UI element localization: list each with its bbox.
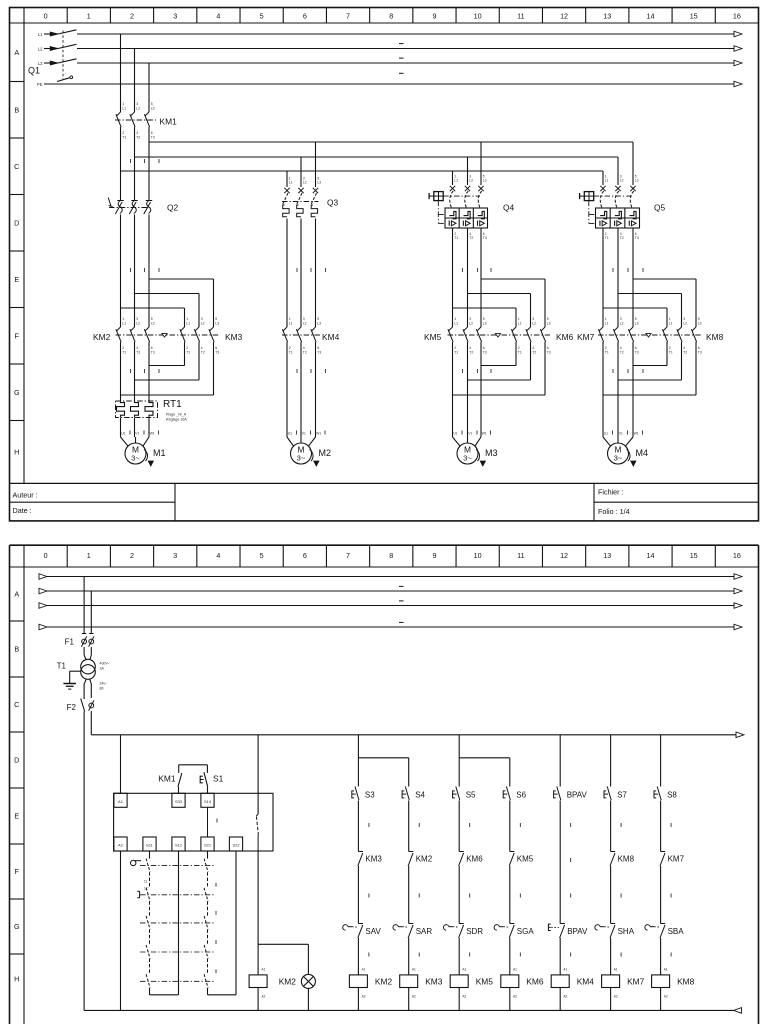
svg-text:U1: U1	[604, 431, 608, 435]
svg-text:KM3: KM3	[365, 855, 382, 864]
wire KM6 crossover	[453, 342, 546, 395]
svg-text:A2: A2	[664, 995, 668, 999]
svg-text:F2: F2	[67, 703, 77, 712]
svg-text:9: 9	[432, 12, 436, 21]
arrow L1 right	[734, 31, 742, 37]
wire bus to Q3 pole1	[286, 171, 288, 187]
svg-text:16: 16	[733, 551, 741, 560]
svg-text:L2: L2	[201, 321, 205, 325]
wire KM1 to Q2 phase 1	[121, 127, 131, 200]
contact KM6 interlock	[459, 852, 484, 866]
wire KM5 lower	[510, 866, 521, 924]
svg-text:T3: T3	[698, 350, 702, 354]
svg-text:6: 6	[303, 12, 307, 21]
svg-text:L1: L1	[669, 321, 673, 325]
svg-text:T3: T3	[483, 350, 487, 354]
svg-text:T1: T1	[454, 350, 458, 354]
svg-text:S12: S12	[175, 843, 183, 848]
wire BPAV lower	[560, 801, 571, 852]
svg-text:T3: T3	[635, 236, 639, 240]
wire control bus 24V	[91, 711, 744, 738]
svg-text:S3: S3	[365, 791, 375, 800]
svg-text:SGA: SGA	[517, 927, 535, 936]
svg-text:4: 4	[216, 551, 220, 560]
svg-text:G: G	[14, 922, 20, 931]
svg-text:A2: A2	[362, 995, 366, 999]
wire feed S5	[458, 735, 460, 787]
motor circuit breaker Q5	[580, 174, 666, 240]
svg-text:S11: S11	[146, 843, 154, 848]
interlock KM2-KM3	[116, 334, 219, 337]
contactor KM7	[577, 317, 639, 354]
svg-text:6: 6	[303, 551, 307, 560]
svg-text:10: 10	[474, 551, 482, 560]
svg-text:15: 15	[690, 551, 698, 560]
wire bus to Q3 pole3	[315, 142, 317, 187]
wire feed S3	[357, 735, 359, 787]
wire KM7 to 0V	[610, 988, 612, 1011]
svg-text:KM8: KM8	[618, 855, 635, 864]
contact KM8 interlock	[610, 852, 635, 866]
switch SAV	[343, 924, 382, 938]
svg-text:3~: 3~	[297, 454, 306, 463]
svg-text:KM5: KM5	[424, 332, 442, 342]
svg-text:L2: L2	[683, 321, 687, 325]
svg-text:T1: T1	[289, 350, 293, 354]
switch S7	[604, 787, 627, 801]
switch S6	[503, 787, 526, 801]
svg-text:L3: L3	[635, 321, 639, 325]
coil KM3	[400, 975, 443, 999]
svg-text:A1: A1	[362, 968, 366, 972]
svg-text:Fichier :: Fichier :	[598, 488, 624, 497]
switch S8	[654, 787, 677, 801]
page 2 drawing frame	[10, 545, 759, 1024]
svg-text:T2: T2	[620, 236, 624, 240]
svg-text:5: 5	[260, 12, 264, 21]
svg-text:Auteur :: Auteur :	[13, 491, 38, 500]
safety module block	[114, 793, 273, 851]
svg-text:3A: 3A	[100, 666, 105, 670]
wire KM2 lower	[409, 866, 420, 924]
svg-text:S14: S14	[204, 799, 212, 804]
wire S14 to S21	[207, 807, 209, 837]
svg-text:L3: L3	[483, 321, 487, 325]
coil KM2	[349, 975, 392, 999]
svg-text:KM6: KM6	[526, 977, 544, 987]
svg-text:T1: T1	[454, 236, 458, 240]
wire KM5 to 0V	[458, 988, 460, 1011]
page 1 drawing frame	[10, 8, 759, 521]
svg-text:S4: S4	[415, 791, 425, 800]
wire page2 line 2	[39, 588, 742, 594]
contact KM1 aux	[158, 765, 207, 794]
svg-text:A2: A2	[412, 995, 416, 999]
wire M4 branch reverse-branch bars	[603, 279, 696, 327]
svg-text:86: 86	[100, 686, 104, 690]
svg-text:T3: T3	[547, 350, 551, 354]
svg-text:A1: A1	[412, 968, 416, 972]
svg-text:S1: S1	[213, 774, 224, 784]
wire KM1 to Q2 phase 3	[149, 127, 159, 200]
wire RT1 to motor	[121, 418, 150, 438]
svg-text:L1: L1	[289, 181, 293, 185]
contactor KM1	[115, 102, 177, 139]
contact KM3 interlock	[358, 852, 383, 866]
svg-text:8: 8	[389, 551, 393, 560]
motor M4	[603, 431, 648, 467]
wire feed S7	[610, 735, 612, 787]
svg-text:5: 5	[260, 551, 264, 560]
svg-text:12: 12	[144, 887, 148, 891]
switch BPAV	[554, 787, 588, 801]
wire KM7 lower	[661, 866, 672, 924]
svg-text:3: 3	[173, 12, 177, 21]
interlock KM5-KM6	[448, 334, 551, 337]
svg-text:A2: A2	[513, 995, 517, 999]
wire bus to module output contact	[257, 735, 259, 814]
wire M3 branch lower to motor	[453, 342, 492, 437]
wire line1 to F1	[82, 577, 86, 634]
circuit breaker Q2	[108, 198, 178, 215]
wire name marks page 2	[399, 586, 404, 622]
bus L3 (top)	[149, 142, 633, 185]
arrow L3 right	[734, 60, 742, 66]
svg-text:KM4: KM4	[577, 977, 595, 987]
wire M3 branch reverse-branch bars	[453, 279, 546, 327]
bus L2 (middle)	[135, 157, 619, 185]
svg-text:A1: A1	[513, 968, 517, 972]
svg-text:L3: L3	[698, 321, 702, 325]
svg-text:L2: L2	[303, 321, 307, 325]
wire KM6 lower	[459, 866, 470, 924]
svg-text:KM3: KM3	[425, 977, 443, 987]
wire PE line	[44, 83, 734, 85]
svg-text:L3: L3	[483, 179, 487, 183]
wire feed S4	[358, 758, 408, 787]
wire BPAV to coil	[560, 938, 571, 975]
contact KM5 interlock	[509, 852, 534, 866]
wire KM3 lower	[358, 866, 369, 924]
svg-text:M3: M3	[485, 448, 498, 458]
svg-text:Folio : 1/4: Folio : 1/4	[598, 507, 630, 516]
svg-text:Réglage 16A: Réglage 16A	[166, 418, 187, 422]
fuse F1	[65, 636, 94, 646]
svg-text:Q3: Q3	[327, 198, 339, 208]
wire KM2 to 0V	[357, 988, 359, 1011]
interlock KM7-KM8	[598, 334, 701, 337]
motor M1	[121, 431, 166, 467]
svg-text:L1: L1	[38, 32, 43, 37]
wire L2 drop to KM1	[134, 49, 136, 113]
svg-text:A: A	[14, 590, 19, 599]
coil KM2 (main)	[249, 968, 296, 1011]
wire L1 entry	[44, 33, 58, 35]
wire feed S8	[660, 735, 662, 787]
coil KM8	[652, 975, 695, 999]
svg-text:15: 15	[690, 12, 698, 21]
svg-text:7: 7	[346, 12, 350, 21]
svg-text:A1: A1	[563, 968, 567, 972]
svg-text:PE: PE	[37, 82, 43, 87]
svg-text:KM6: KM6	[556, 332, 574, 342]
wire S6 lower	[510, 801, 521, 852]
switch S4	[402, 787, 425, 801]
wire SGA to coil	[510, 938, 521, 975]
wire M4 branch lower to motor	[603, 342, 643, 437]
svg-text:T3: T3	[317, 350, 321, 354]
svg-text:V1: V1	[135, 431, 139, 435]
svg-text:T2: T2	[303, 350, 307, 354]
svg-text:A2: A2	[614, 995, 618, 999]
contact KM2 interlock	[408, 852, 433, 866]
svg-text:T2: T2	[532, 350, 536, 354]
svg-text:SBA: SBA	[668, 927, 685, 936]
svg-text:Q1: Q1	[28, 66, 40, 76]
wire KM3 crossover	[121, 342, 214, 395]
svg-text:H: H	[14, 975, 19, 984]
motor M3	[453, 431, 498, 467]
svg-text:13: 13	[603, 551, 611, 560]
svg-text:BPAV: BPAV	[567, 791, 588, 800]
wire chain bottoms	[150, 851, 237, 995]
svg-text:W1: W1	[316, 431, 321, 435]
svg-text:C: C	[14, 162, 19, 171]
svg-text:T2: T2	[136, 135, 140, 139]
svg-text:L1: L1	[186, 321, 190, 325]
svg-text:3~: 3~	[614, 454, 623, 463]
svg-text:T1: T1	[605, 350, 609, 354]
wire F1 to T1	[84, 647, 91, 660]
svg-text:L1: L1	[122, 321, 126, 325]
svg-text:L2: L2	[303, 181, 307, 185]
switch SAR	[393, 924, 432, 938]
svg-text:KM1: KM1	[158, 774, 176, 784]
switch S5	[453, 787, 476, 801]
wire L1 phase line	[77, 33, 734, 35]
svg-text:14: 14	[646, 12, 654, 21]
wire bus to Q4 pole2	[467, 157, 469, 185]
wire KM4 to 0V	[559, 988, 561, 1011]
svg-text:T3: T3	[215, 350, 219, 354]
arrow PE right	[734, 81, 742, 87]
svg-text:T1: T1	[122, 135, 126, 139]
svg-text:A1: A1	[614, 968, 618, 972]
svg-text:T2: T2	[201, 350, 205, 354]
svg-text:3~: 3~	[131, 454, 140, 463]
svg-text:KM7: KM7	[627, 977, 645, 987]
svg-text:B: B	[14, 645, 19, 654]
svg-text:L1: L1	[518, 321, 522, 325]
wire 24V return	[83, 712, 85, 1011]
svg-text:KM2: KM2	[93, 332, 111, 342]
wire L3 drop to KM1	[148, 63, 150, 112]
indicator lamp	[301, 944, 315, 1010]
wire L2 phase line	[77, 48, 734, 50]
svg-text:L1: L1	[454, 321, 458, 325]
wire feed S6	[459, 758, 510, 787]
ground	[63, 684, 76, 690]
contactor KM8	[662, 317, 723, 354]
switch BPAV	[548, 924, 588, 938]
wire S4 lower	[409, 801, 420, 852]
thermal overload relay RT1	[116, 399, 188, 422]
svg-text:A2: A2	[262, 995, 266, 999]
wire M2 branch lower to motor	[287, 342, 326, 437]
svg-text:M4: M4	[636, 448, 649, 458]
svg-text:KM4: KM4	[322, 332, 340, 342]
svg-text:7: 7	[346, 551, 350, 560]
svg-text:L3: L3	[547, 321, 551, 325]
svg-text:Q4: Q4	[503, 203, 515, 213]
svg-text:T2: T2	[620, 350, 624, 354]
svg-text:L1: L1	[605, 179, 609, 183]
svg-text:S5: S5	[466, 791, 476, 800]
svg-text:D: D	[14, 756, 19, 765]
wire S3 lower	[358, 801, 369, 852]
page 1 column numbers	[44, 12, 741, 21]
coil KM5	[450, 975, 493, 999]
svg-text:11: 11	[144, 880, 148, 884]
svg-text:V1: V1	[619, 431, 623, 435]
wire T1 to F2	[84, 679, 91, 699]
svg-text:S7: S7	[617, 791, 627, 800]
svg-text:T1: T1	[186, 350, 190, 354]
wire 0V bus	[84, 1008, 741, 1014]
svg-text:A2: A2	[462, 995, 466, 999]
svg-text:KM5: KM5	[517, 855, 534, 864]
svg-text:SAV: SAV	[365, 927, 381, 936]
wire KM1 to Q2 phase 2	[135, 127, 145, 200]
wire L3 phase line	[77, 62, 734, 64]
wire bus to Q4 pole1	[452, 171, 454, 185]
svg-text:L2: L2	[620, 179, 624, 183]
svg-text:C: C	[14, 700, 19, 709]
svg-text:2: 2	[130, 12, 134, 21]
motor circuit breaker Q4	[429, 174, 514, 240]
svg-text:Plage _N/_A: Plage _N/_A	[166, 413, 187, 417]
wire SDR to coil	[459, 938, 470, 975]
svg-text:W1: W1	[634, 431, 639, 435]
contactor KM5	[424, 317, 487, 354]
wire KM6 to 0V	[509, 988, 511, 1011]
svg-text:L2: L2	[38, 47, 43, 52]
svg-text:F: F	[15, 331, 20, 340]
svg-text:KM7: KM7	[577, 332, 595, 342]
contactor KM6	[511, 317, 573, 354]
svg-text:B: B	[14, 105, 19, 114]
coil KM7	[602, 975, 645, 999]
transformer T1	[57, 659, 110, 690]
svg-text:M2: M2	[319, 448, 332, 458]
svg-text:S22: S22	[232, 843, 240, 848]
svg-text:T1: T1	[518, 350, 522, 354]
wire M1 branch reverse-branch bars	[121, 279, 214, 327]
svg-text:SDR: SDR	[466, 927, 483, 936]
node L3 label	[38, 61, 58, 66]
svg-text:BPAV: BPAV	[567, 927, 588, 936]
svg-text:1: 1	[87, 12, 91, 21]
wire name marks page 1	[399, 44, 404, 74]
wire module output to coil	[258, 851, 308, 975]
svg-text:L3: L3	[151, 321, 155, 325]
svg-text:T2: T2	[683, 350, 687, 354]
svg-text:11: 11	[517, 12, 524, 21]
svg-text:2: 2	[130, 551, 134, 560]
svg-text:A: A	[14, 48, 19, 57]
svg-text:G: G	[14, 388, 20, 397]
svg-text:KM2: KM2	[279, 977, 297, 987]
svg-text:D: D	[14, 218, 19, 227]
wire feed BPAV	[559, 735, 561, 787]
svg-text:L3: L3	[215, 321, 219, 325]
svg-text:3~: 3~	[463, 454, 472, 463]
switch-disconnector Q1	[28, 30, 77, 82]
svg-text:A1: A1	[664, 968, 668, 972]
bus L1 (bottom)	[121, 171, 604, 185]
wire BPAV middle	[560, 852, 571, 924]
svg-text:T3: T3	[151, 350, 155, 354]
svg-text:12: 12	[560, 12, 568, 21]
contactor KM4	[282, 317, 340, 354]
switch S3	[352, 787, 375, 801]
svg-text:T2: T2	[136, 350, 140, 354]
svg-text:A1: A1	[462, 968, 466, 972]
svg-text:RT1: RT1	[163, 399, 182, 410]
wire M3 branch phase verticals	[453, 228, 492, 327]
wire KM8 lower	[611, 866, 622, 924]
svg-text:T1: T1	[57, 662, 67, 671]
wire SAR to coil	[409, 938, 420, 975]
switch SBA	[645, 924, 684, 938]
title block	[10, 483, 759, 521]
svg-text:S21: S21	[204, 843, 212, 848]
svg-text:U1: U1	[288, 431, 292, 435]
svg-text:24v~: 24v~	[100, 681, 108, 685]
wire A2 to 0V bus	[120, 851, 122, 1010]
svg-text:9: 9	[432, 551, 436, 560]
contactor KM2	[93, 317, 155, 354]
page 2 column numbers	[44, 551, 741, 560]
svg-text:L3: L3	[151, 106, 155, 110]
svg-text:S6: S6	[516, 791, 526, 800]
svg-text:SAR: SAR	[416, 927, 433, 936]
svg-text:SHA: SHA	[618, 927, 635, 936]
svg-text:13: 13	[603, 12, 611, 21]
wire bus to Q3 pole2	[300, 157, 302, 187]
switch SHA	[595, 924, 635, 938]
svg-text:L2: L2	[136, 106, 140, 110]
svg-text:M1: M1	[153, 448, 166, 458]
svg-text:T3: T3	[483, 236, 487, 240]
wire M1 branch phase verticals	[121, 215, 160, 328]
svg-text:F: F	[15, 867, 20, 876]
wire L3 entry	[44, 62, 58, 64]
node L1 label	[38, 32, 58, 37]
svg-text:L2: L2	[136, 321, 140, 325]
svg-text:14: 14	[646, 551, 654, 560]
wire L1 drop to KM1	[120, 34, 122, 112]
arrow L2 right	[734, 46, 742, 52]
svg-text:A2: A2	[118, 843, 124, 848]
wire KM3 to 0V	[408, 988, 410, 1011]
node L2 label	[38, 47, 58, 52]
coil KM4	[551, 975, 594, 999]
circuit breaker Q3	[282, 176, 339, 216]
svg-text:L1: L1	[454, 179, 458, 183]
wire bus to A1	[120, 735, 122, 794]
switch S1 cam contact chain	[131, 851, 217, 995]
